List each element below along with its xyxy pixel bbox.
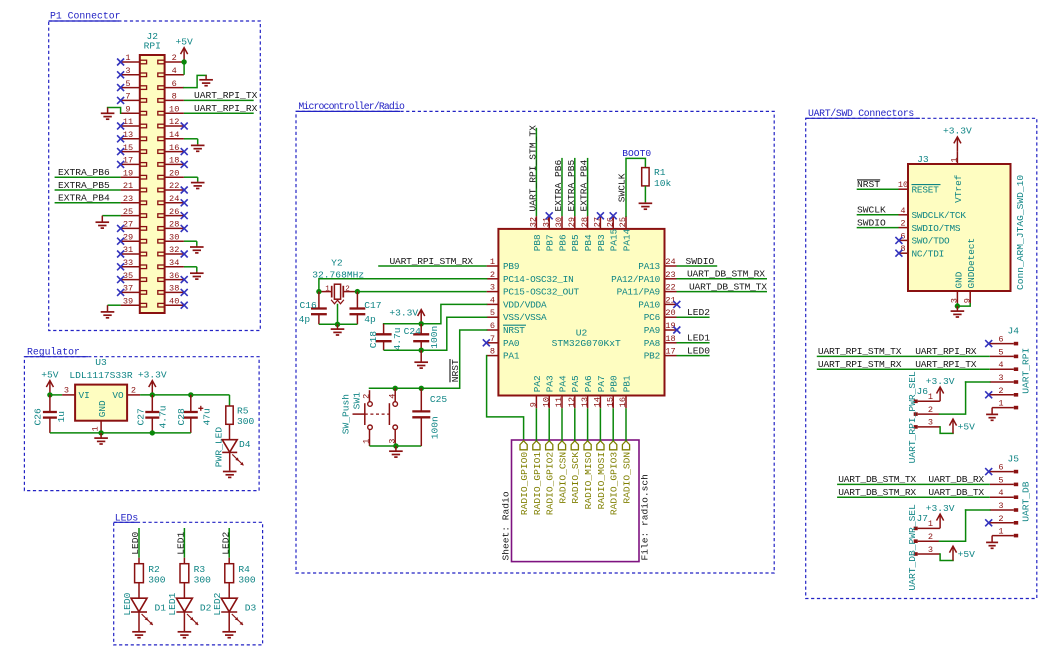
- svg-text:35: 35: [123, 271, 133, 281]
- ground (J2 pin 6): [205, 75, 207, 79]
- U2 pin 7 (PA0): [487, 342, 499, 344]
- svg-text:29: 29: [123, 232, 133, 242]
- capacitor C28 (polarized): [190, 395, 192, 412]
- svg-text:GNDDetect: GNDDetect: [966, 238, 977, 289]
- svg-text:15: 15: [605, 397, 615, 407]
- U2 pin 26 (PA15): [612, 216, 614, 229]
- svg-text:2: 2: [900, 219, 905, 229]
- svg-text:15: 15: [123, 143, 133, 153]
- U2 pin 3 (PC15-OSC32_OUT): [487, 291, 499, 293]
- J3 pin 9 (GNDDetect): [969, 291, 971, 304]
- svg-text:4: 4: [172, 66, 177, 76]
- no-connect J2 pin 27: [117, 225, 124, 232]
- svg-text:14: 14: [169, 130, 179, 140]
- U2 pin 15 (PB0): [612, 396, 614, 409]
- wire U2 pin 5 VSS to ground rail: [447, 317, 487, 350]
- svg-text:2: 2: [928, 405, 933, 415]
- junction SW1 pin 4: [393, 386, 398, 391]
- svg-text:PB6: PB6: [557, 234, 568, 251]
- svg-text:2: 2: [362, 394, 372, 399]
- wire net SWCLK to J3: [857, 214, 899, 216]
- connector J2 pin 10: [165, 112, 184, 114]
- wire U3 VO to +3.3V rail: [140, 394, 229, 396]
- svg-text:22: 22: [665, 283, 675, 293]
- sheet pin RADIO_CSN: [558, 441, 565, 450]
- sheet pin RADIO_GPIO2: [546, 441, 553, 450]
- svg-text:5: 5: [998, 347, 1003, 357]
- ground (D3): [228, 612, 230, 631]
- svg-text:6: 6: [172, 79, 177, 89]
- svg-text:LED1: LED1: [167, 592, 178, 615]
- svg-text:PC15-OSC32_OUT: PC15-OSC32_OUT: [503, 287, 580, 298]
- connector J2 pin 25: [121, 215, 140, 217]
- U3 pin 3 VI: [62, 394, 75, 396]
- sheet pin RADIO_GPIO0: [520, 441, 527, 450]
- svg-text:10k: 10k: [654, 178, 672, 189]
- no-connect J2 pin 16: [181, 148, 188, 155]
- no-connect J3 pin 6: [895, 237, 902, 244]
- connector J2 pin 8: [165, 99, 184, 101]
- ground (J2 pin 39): [107, 305, 109, 312]
- svg-text:LED1: LED1: [687, 333, 710, 344]
- svg-text:NRST: NRST: [857, 179, 880, 190]
- svg-text:21: 21: [123, 181, 133, 191]
- svg-text:+3.3V: +3.3V: [138, 369, 167, 380]
- svg-text:PA0: PA0: [503, 338, 520, 349]
- svg-text:SW_Push: SW_Push: [341, 394, 352, 434]
- J7 pin 1: [918, 527, 940, 529]
- svg-text:23: 23: [123, 194, 133, 204]
- svg-text:+5V: +5V: [958, 549, 976, 560]
- connector J2 pin 30: [165, 240, 184, 242]
- wire net UART_DB_STM_RX/UART_DB_TX (J5 pin 4): [837, 496, 990, 498]
- junction J3 ground: [955, 303, 960, 308]
- no-connect U2 pin 19: [673, 327, 680, 334]
- svg-text:PA11/PA9: PA11/PA9: [617, 287, 660, 298]
- svg-text:18: 18: [665, 334, 675, 344]
- svg-text:4: 4: [490, 295, 495, 305]
- wire J2 pin25 to ground: [102, 215, 120, 217]
- U2 pin 31 (PB7): [548, 216, 550, 229]
- svg-text:5: 5: [998, 475, 1003, 485]
- svg-text:18: 18: [169, 156, 179, 166]
- svg-text:C16: C16: [300, 300, 318, 311]
- svg-text:RADIO_GPIO3: RADIO_GPIO3: [609, 452, 620, 516]
- no-connect J3 pin 8: [895, 250, 902, 257]
- section box P1 Connector: [49, 21, 261, 331]
- wire J2 pin30 to ground: [184, 240, 197, 242]
- junction +3.3V C24: [419, 321, 424, 326]
- svg-text:12: 12: [567, 397, 577, 407]
- svg-text:20: 20: [665, 308, 675, 318]
- svg-text:EXTRA_PB4: EXTRA_PB4: [58, 193, 110, 204]
- ground (J2 pin 34): [196, 272, 198, 274]
- capacitor C17: [356, 292, 358, 309]
- svg-text:4: 4: [900, 206, 905, 216]
- U2 pin 28 (PB4): [587, 216, 589, 229]
- connector J2 pin 4: [165, 74, 184, 76]
- no-connect J2 pin 15: [117, 148, 124, 155]
- svg-text:30: 30: [169, 232, 179, 242]
- U2 pin 30 (PB6): [561, 216, 563, 229]
- svg-text:10: 10: [541, 397, 551, 407]
- connector J2 pin 2: [165, 61, 184, 63]
- no-connect J2 pin 38: [181, 289, 188, 296]
- junction SW1 ground: [393, 443, 398, 448]
- svg-text:33: 33: [123, 258, 133, 268]
- no-connect J4 pin 2: [985, 391, 992, 398]
- U2 pin 32 (PB8): [535, 216, 537, 229]
- svg-text:J6: J6: [917, 386, 929, 397]
- no-connect J2 pin 28: [181, 225, 188, 232]
- capacitor C18: [383, 324, 385, 335]
- LED D3: [221, 598, 237, 612]
- wire U2 pin 15 to sheet RADIO_GPIO3: [612, 408, 614, 441]
- svg-text:SWDIO/TMS: SWDIO/TMS: [912, 223, 961, 234]
- svg-text:32: 32: [529, 217, 539, 227]
- U2 pin 13 (PA6): [587, 396, 589, 409]
- wire decoupling ground rail: [384, 349, 447, 351]
- wire J2 pin14 to ground: [184, 138, 198, 140]
- wire U2 pin 8 PA1 to sheet RADIO_GPIO0: [487, 356, 524, 441]
- wire J5 pin 3 to power select: [966, 509, 990, 511]
- section box UART/SWD Connectors: [806, 118, 1037, 598]
- power +5V (J7 pin 3): [952, 547, 954, 560]
- svg-text:1: 1: [950, 157, 960, 162]
- resistor R2: [138, 558, 140, 564]
- svg-text:PA15: PA15: [609, 228, 620, 251]
- connector J2 pin 12: [165, 125, 184, 127]
- capacitor C16: [318, 292, 320, 309]
- wire +5V to U3 VI: [50, 394, 62, 396]
- no-connect J2 pin 13: [117, 135, 124, 142]
- svg-text:RADIO_MOSI: RADIO_MOSI: [596, 452, 607, 510]
- no-connect J2 pin 18: [181, 161, 188, 168]
- wire regulator bottom ground rail: [50, 432, 191, 434]
- svg-text:PA4: PA4: [557, 375, 568, 392]
- connector J2 pin 29: [121, 240, 140, 242]
- J4 pin 1: [992, 407, 1014, 409]
- svg-text:C26: C26: [33, 408, 44, 426]
- wire net BOOT0/SWCLK (U2 pin 25): [626, 158, 645, 216]
- junction +3.3V/C27: [150, 392, 155, 397]
- connector J2 pin 6: [165, 87, 184, 89]
- LED D2: [176, 598, 192, 612]
- wire net NRST to J3: [857, 188, 899, 190]
- svg-text:25: 25: [123, 207, 133, 217]
- wire J7 pin 3 to +5V: [940, 554, 953, 561]
- section box Microcontroller/Radio: [296, 111, 774, 573]
- wire crystal case to ground rail: [337, 304, 339, 325]
- U2 pin 24 (PA13): [665, 265, 677, 267]
- svg-text:VI: VI: [79, 390, 90, 401]
- svg-text:1: 1: [91, 426, 101, 431]
- svg-text:PA10: PA10: [638, 299, 660, 310]
- no-connect J2 pin 31: [117, 251, 124, 258]
- svg-text:EXTRA_PB4: EXTRA_PB4: [579, 159, 590, 211]
- J3 pin 2 (SWDIO/TMS): [899, 227, 909, 229]
- svg-text:1: 1: [928, 392, 933, 402]
- svg-text:4p: 4p: [299, 314, 311, 325]
- svg-text:25: 25: [618, 217, 628, 227]
- svg-text:19: 19: [665, 321, 675, 331]
- svg-text:17: 17: [123, 156, 133, 166]
- power +3.3V (J3 VTref): [956, 138, 958, 151]
- svg-text:C17: C17: [364, 300, 381, 311]
- ground (J3): [956, 306, 958, 311]
- wire net UART_DB_STM_TX (U2 pin 22): [677, 291, 768, 293]
- svg-text:GND: GND: [953, 271, 964, 288]
- svg-text:PB7: PB7: [545, 234, 556, 251]
- J3 pin 3 (GND): [956, 291, 958, 304]
- svg-text:+3.3V: +3.3V: [943, 126, 972, 137]
- svg-text:16: 16: [618, 397, 628, 407]
- ground (R1): [644, 202, 646, 203]
- svg-text:PA3: PA3: [545, 375, 556, 392]
- svg-text:VTref: VTref: [953, 174, 964, 203]
- wire R4 to D3: [228, 583, 230, 599]
- svg-text:LED0: LED0: [122, 592, 133, 615]
- svg-text:J5: J5: [1008, 454, 1020, 465]
- svg-text:17: 17: [665, 347, 675, 357]
- wire net LED0: [138, 528, 140, 558]
- svg-text:PB2: PB2: [644, 351, 660, 362]
- power +5V (J2 pin 2): [183, 49, 185, 62]
- svg-text:4.7u: 4.7u: [158, 405, 169, 428]
- wire U2 pin 2 to crystal: [319, 279, 487, 292]
- svg-text:UART_DB_TX: UART_DB_TX: [928, 487, 984, 498]
- U2 pin 1 (PB9): [487, 265, 499, 267]
- svg-text:R1: R1: [654, 167, 666, 178]
- svg-text:BOOT0: BOOT0: [622, 148, 651, 159]
- ground (J2 pin 25): [101, 216, 103, 223]
- hierarchical sheet Radio: [512, 440, 640, 562]
- svg-text:RADIO_SCK: RADIO_SCK: [570, 452, 581, 504]
- ground (J2 pin 30): [196, 246, 198, 247]
- svg-text:UART_RPI_PWR_SEL: UART_RPI_PWR_SEL: [907, 371, 918, 463]
- junction C25 top: [419, 386, 424, 391]
- svg-text:SWDIO: SWDIO: [686, 256, 715, 267]
- power +3.3V (J7 pin 1): [939, 515, 941, 528]
- svg-text:UART_RPI_STM_TX: UART_RPI_STM_TX: [818, 346, 902, 357]
- connector J2 pin 5: [121, 87, 140, 89]
- connector J2 pin 13: [121, 138, 140, 140]
- svg-text:UART_RPI_TX: UART_RPI_TX: [194, 90, 258, 101]
- wire net UART_RPI_STM_TX/UART_RPI_RX (J4 pin 5): [817, 355, 990, 357]
- ground (J4 pin 1): [991, 408, 993, 414]
- svg-text:UART/SWD Connectors: UART/SWD Connectors: [808, 108, 914, 119]
- svg-text:3: 3: [950, 298, 960, 303]
- svg-text:C18: C18: [368, 331, 379, 349]
- svg-text:3: 3: [64, 386, 69, 396]
- svg-text:PB9: PB9: [503, 261, 519, 272]
- no-connect J5 pin 6: [985, 468, 992, 475]
- sheet pin RADIO_MISO: [584, 441, 591, 450]
- J5 pin 1: [992, 535, 1014, 537]
- wire J2 pin20 to ground: [184, 176, 198, 178]
- svg-text:UART_RPI_RX: UART_RPI_RX: [194, 103, 258, 114]
- svg-text:1u: 1u: [56, 411, 67, 423]
- svg-text:SW1: SW1: [352, 392, 363, 410]
- svg-text:9: 9: [529, 402, 539, 407]
- U2 pin 9 (PA2): [535, 396, 537, 409]
- LED D1: [131, 598, 147, 612]
- svg-text:28: 28: [169, 220, 179, 230]
- connector J2 pin 3: [121, 74, 140, 76]
- connector J2 pin 38: [165, 291, 184, 293]
- svg-text:12: 12: [169, 117, 179, 127]
- svg-text:2: 2: [172, 53, 177, 63]
- U2 pin 4 (VDD/VDDA): [487, 303, 499, 305]
- svg-text:3: 3: [490, 283, 495, 293]
- resistor R3: [183, 558, 185, 564]
- svg-text:LDL1117S33R: LDL1117S33R: [69, 370, 133, 381]
- connector J2 body: [140, 55, 165, 313]
- no-connect J2 pin 11: [117, 123, 124, 130]
- connector J2 pin 27: [121, 227, 140, 229]
- wire J2 pin6 to ground: [184, 75, 206, 87]
- U2 pin 22 (PA11/PA9): [665, 291, 677, 293]
- wire net UART_RPI_STM_RX (U2 pin 1): [378, 265, 486, 267]
- svg-text:EXTRA_PB6: EXTRA_PB6: [553, 159, 564, 211]
- ground (D1): [138, 612, 140, 631]
- J6 pin 3: [918, 426, 940, 428]
- sheet pin RADIO_SDN: [622, 441, 629, 450]
- J5 pin 5: [990, 483, 1014, 485]
- ground (regulator): [100, 433, 102, 438]
- svg-text:300: 300: [194, 575, 212, 586]
- wire U2 pin 11 to sheet RADIO_CSN: [561, 408, 563, 441]
- wire net UART_RPI_RX (J2 pin 10): [184, 112, 254, 114]
- svg-text:38: 38: [169, 284, 179, 294]
- svg-text:40: 40: [169, 296, 179, 306]
- wire U2 pin 16 to sheet RADIO_SDN: [625, 408, 627, 441]
- svg-text:32: 32: [169, 245, 179, 255]
- svg-text:U3: U3: [95, 357, 107, 368]
- svg-text:37: 37: [123, 284, 133, 294]
- junction crystal right: [355, 289, 360, 294]
- junction C27 bottom: [150, 430, 155, 435]
- svg-text:UART_RPI_STM_TX: UART_RPI_STM_TX: [527, 125, 538, 212]
- svg-text:19: 19: [123, 168, 133, 178]
- svg-text:5: 5: [125, 79, 130, 89]
- svg-text:300: 300: [148, 575, 166, 586]
- U2 pin 5 (VSS/VSSA): [487, 316, 499, 318]
- regulator U3 body: [75, 385, 127, 421]
- connector J2 pin 26: [165, 215, 184, 217]
- U3 pin 1 GND: [100, 421, 102, 433]
- svg-text:RADIO_SDN: RADIO_SDN: [621, 452, 632, 504]
- svg-text:300: 300: [238, 575, 256, 586]
- svg-text:9: 9: [962, 298, 972, 303]
- no-connect U2 pin 27: [597, 212, 604, 219]
- connector J2 pin 15: [121, 151, 140, 153]
- J6 pin 1: [918, 400, 940, 402]
- J3 pin 4 (SWDCLK/TCK): [899, 214, 909, 216]
- U2 pin 2 (PC14-OSC32_IN): [487, 278, 499, 280]
- svg-text:PA12/PA10: PA12/PA10: [611, 274, 660, 285]
- svg-text:PA14: PA14: [621, 228, 632, 251]
- svg-text:PB5: PB5: [570, 234, 581, 251]
- ground (crystal): [337, 324, 339, 329]
- svg-text:2: 2: [345, 285, 350, 293]
- svg-text:8: 8: [172, 92, 177, 102]
- svg-text:32.768MHz: 32.768MHz: [312, 269, 364, 280]
- svg-text:26: 26: [169, 207, 179, 217]
- wire +3.3V rail to R5: [229, 395, 231, 406]
- svg-text:PC14-OSC32_IN: PC14-OSC32_IN: [503, 274, 574, 285]
- svg-text:Y2: Y2: [331, 257, 343, 268]
- no-connect J2 pin 36: [181, 276, 188, 283]
- svg-text:3: 3: [928, 545, 933, 555]
- svg-text:LED2: LED2: [687, 307, 710, 318]
- svg-text:LED2: LED2: [220, 532, 231, 555]
- svg-text:14: 14: [593, 397, 603, 407]
- svg-text:23: 23: [665, 270, 675, 280]
- svg-text:RADIO_GPIO0: RADIO_GPIO0: [519, 452, 530, 516]
- crystal Y2: [319, 291, 331, 293]
- junction crystal left: [316, 289, 321, 294]
- svg-text:UART_RPI_RX: UART_RPI_RX: [915, 346, 977, 357]
- svg-text:13: 13: [123, 130, 133, 140]
- J7 pin 2: [918, 540, 940, 542]
- svg-text:NRST: NRST: [450, 359, 461, 382]
- connector J2 pin 39: [121, 304, 140, 306]
- microcontroller U2 body: [498, 229, 664, 396]
- svg-text:28: 28: [580, 217, 590, 227]
- wire R3 to D2: [183, 583, 185, 599]
- svg-text:+3.3V: +3.3V: [389, 308, 418, 319]
- J7 pin 3: [918, 553, 940, 555]
- svg-text:PC6: PC6: [644, 312, 661, 323]
- svg-text:4: 4: [998, 488, 1003, 498]
- svg-text:21: 21: [665, 295, 675, 305]
- svg-text:LEDs: LEDs: [115, 512, 139, 523]
- connector J2 pin 17: [121, 163, 140, 165]
- J5 pin 4: [990, 496, 1014, 498]
- wire U2 pin 13 to sheet RADIO_MISO: [587, 408, 589, 441]
- svg-text:PB0: PB0: [609, 375, 620, 392]
- capacitor C24: [420, 324, 422, 335]
- wire R1 to ground: [644, 186, 646, 202]
- svg-text:1: 1: [125, 53, 130, 63]
- svg-text:SWO/TDO: SWO/TDO: [912, 236, 951, 247]
- svg-text:5: 5: [490, 308, 495, 318]
- connector J3 body: [908, 164, 1011, 291]
- wire net UART_DB_STM_TX/UART_DB_RX (J5 pin 5): [837, 483, 990, 485]
- svg-text:1: 1: [928, 519, 933, 529]
- svg-text:EXTRA_PB6: EXTRA_PB6: [58, 167, 110, 178]
- connector J2 pin 37: [121, 291, 140, 293]
- svg-text:SWDIO: SWDIO: [857, 217, 886, 228]
- svg-text:6: 6: [998, 335, 1003, 345]
- svg-text:+5V: +5V: [175, 37, 193, 48]
- U2 pin 18 (PA8): [665, 342, 677, 344]
- svg-text:J3: J3: [917, 154, 929, 165]
- svg-text:1: 1: [362, 439, 372, 444]
- svg-text:8: 8: [490, 347, 495, 357]
- connector J2 pin 19: [121, 176, 140, 178]
- svg-text:LED2: LED2: [212, 592, 223, 615]
- svg-text:UART_DB_RX: UART_DB_RX: [928, 474, 984, 485]
- svg-text:UART_RPI_STM_RX: UART_RPI_STM_RX: [390, 256, 474, 267]
- wire U2 pin 3 to crystal: [357, 291, 486, 293]
- svg-text:30: 30: [554, 217, 564, 227]
- no-connect J2 pin 37: [117, 289, 124, 296]
- svg-text:6: 6: [998, 463, 1003, 473]
- wire R5 to D4: [229, 424, 231, 439]
- wire crystal caps ground rail: [319, 323, 358, 325]
